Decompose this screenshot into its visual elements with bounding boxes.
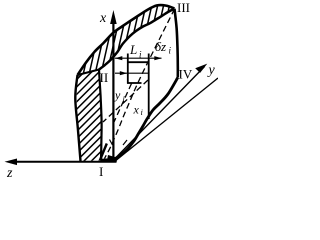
svg-text:IV: IV [179, 67, 193, 82]
edge II_back to II_front (band corner connector) [78, 70, 100, 76]
svg-text:z: z [6, 166, 13, 181]
element rectangle bottom edge [127, 82, 142, 84]
element rectangle right edge (extends down to profile) [148, 54, 150, 120]
left side section band hatching [60, 0, 112, 222]
blade back-top edge [78, 5, 175, 75]
blade front-left edge I-II [99, 70, 102, 161]
element rectangle left edge (with extension up) [127, 54, 129, 84]
dashed element axis x_i [103, 80, 148, 122]
top section band hatching [76, 0, 194, 80]
blade bottom edge at base I-origin [101, 158, 115, 162]
svg-text:II: II [100, 70, 109, 85]
svg-text:L: L [129, 42, 137, 57]
dashed ticks near base [110, 140, 113, 146]
svg-text:III: III [177, 0, 190, 15]
blade back-left edge [75, 75, 80, 161]
svg-text:y: y [207, 63, 216, 78]
svg-text:x: x [99, 11, 107, 26]
front-left edge lower thick segment [100, 144, 107, 161]
element rectangle top edge [127, 61, 149, 63]
dashed element axis y_i [114, 84, 132, 123]
svg-text:y: y [114, 88, 121, 102]
auxiliary line from origin parallel projection [117, 78, 219, 160]
z-axis [15, 161, 117, 163]
dashed blade centre line III to I [105, 9, 175, 159]
blade bottom edge IV-origin (thick curve) [114, 78, 178, 160]
blade front-top edge II-III [99, 9, 175, 70]
svg-text:δz: δz [155, 39, 166, 54]
corner blob at origin [107, 155, 117, 162]
svg-text:I: I [99, 164, 103, 179]
arrow to element left edge [115, 72, 149, 74]
x-axis [112, 22, 114, 162]
svg-text:x: x [133, 103, 140, 117]
y-axis [114, 67, 205, 160]
dimension line L_i / delta z_i [115, 57, 162, 59]
blade right edge III-IV [175, 9, 178, 78]
